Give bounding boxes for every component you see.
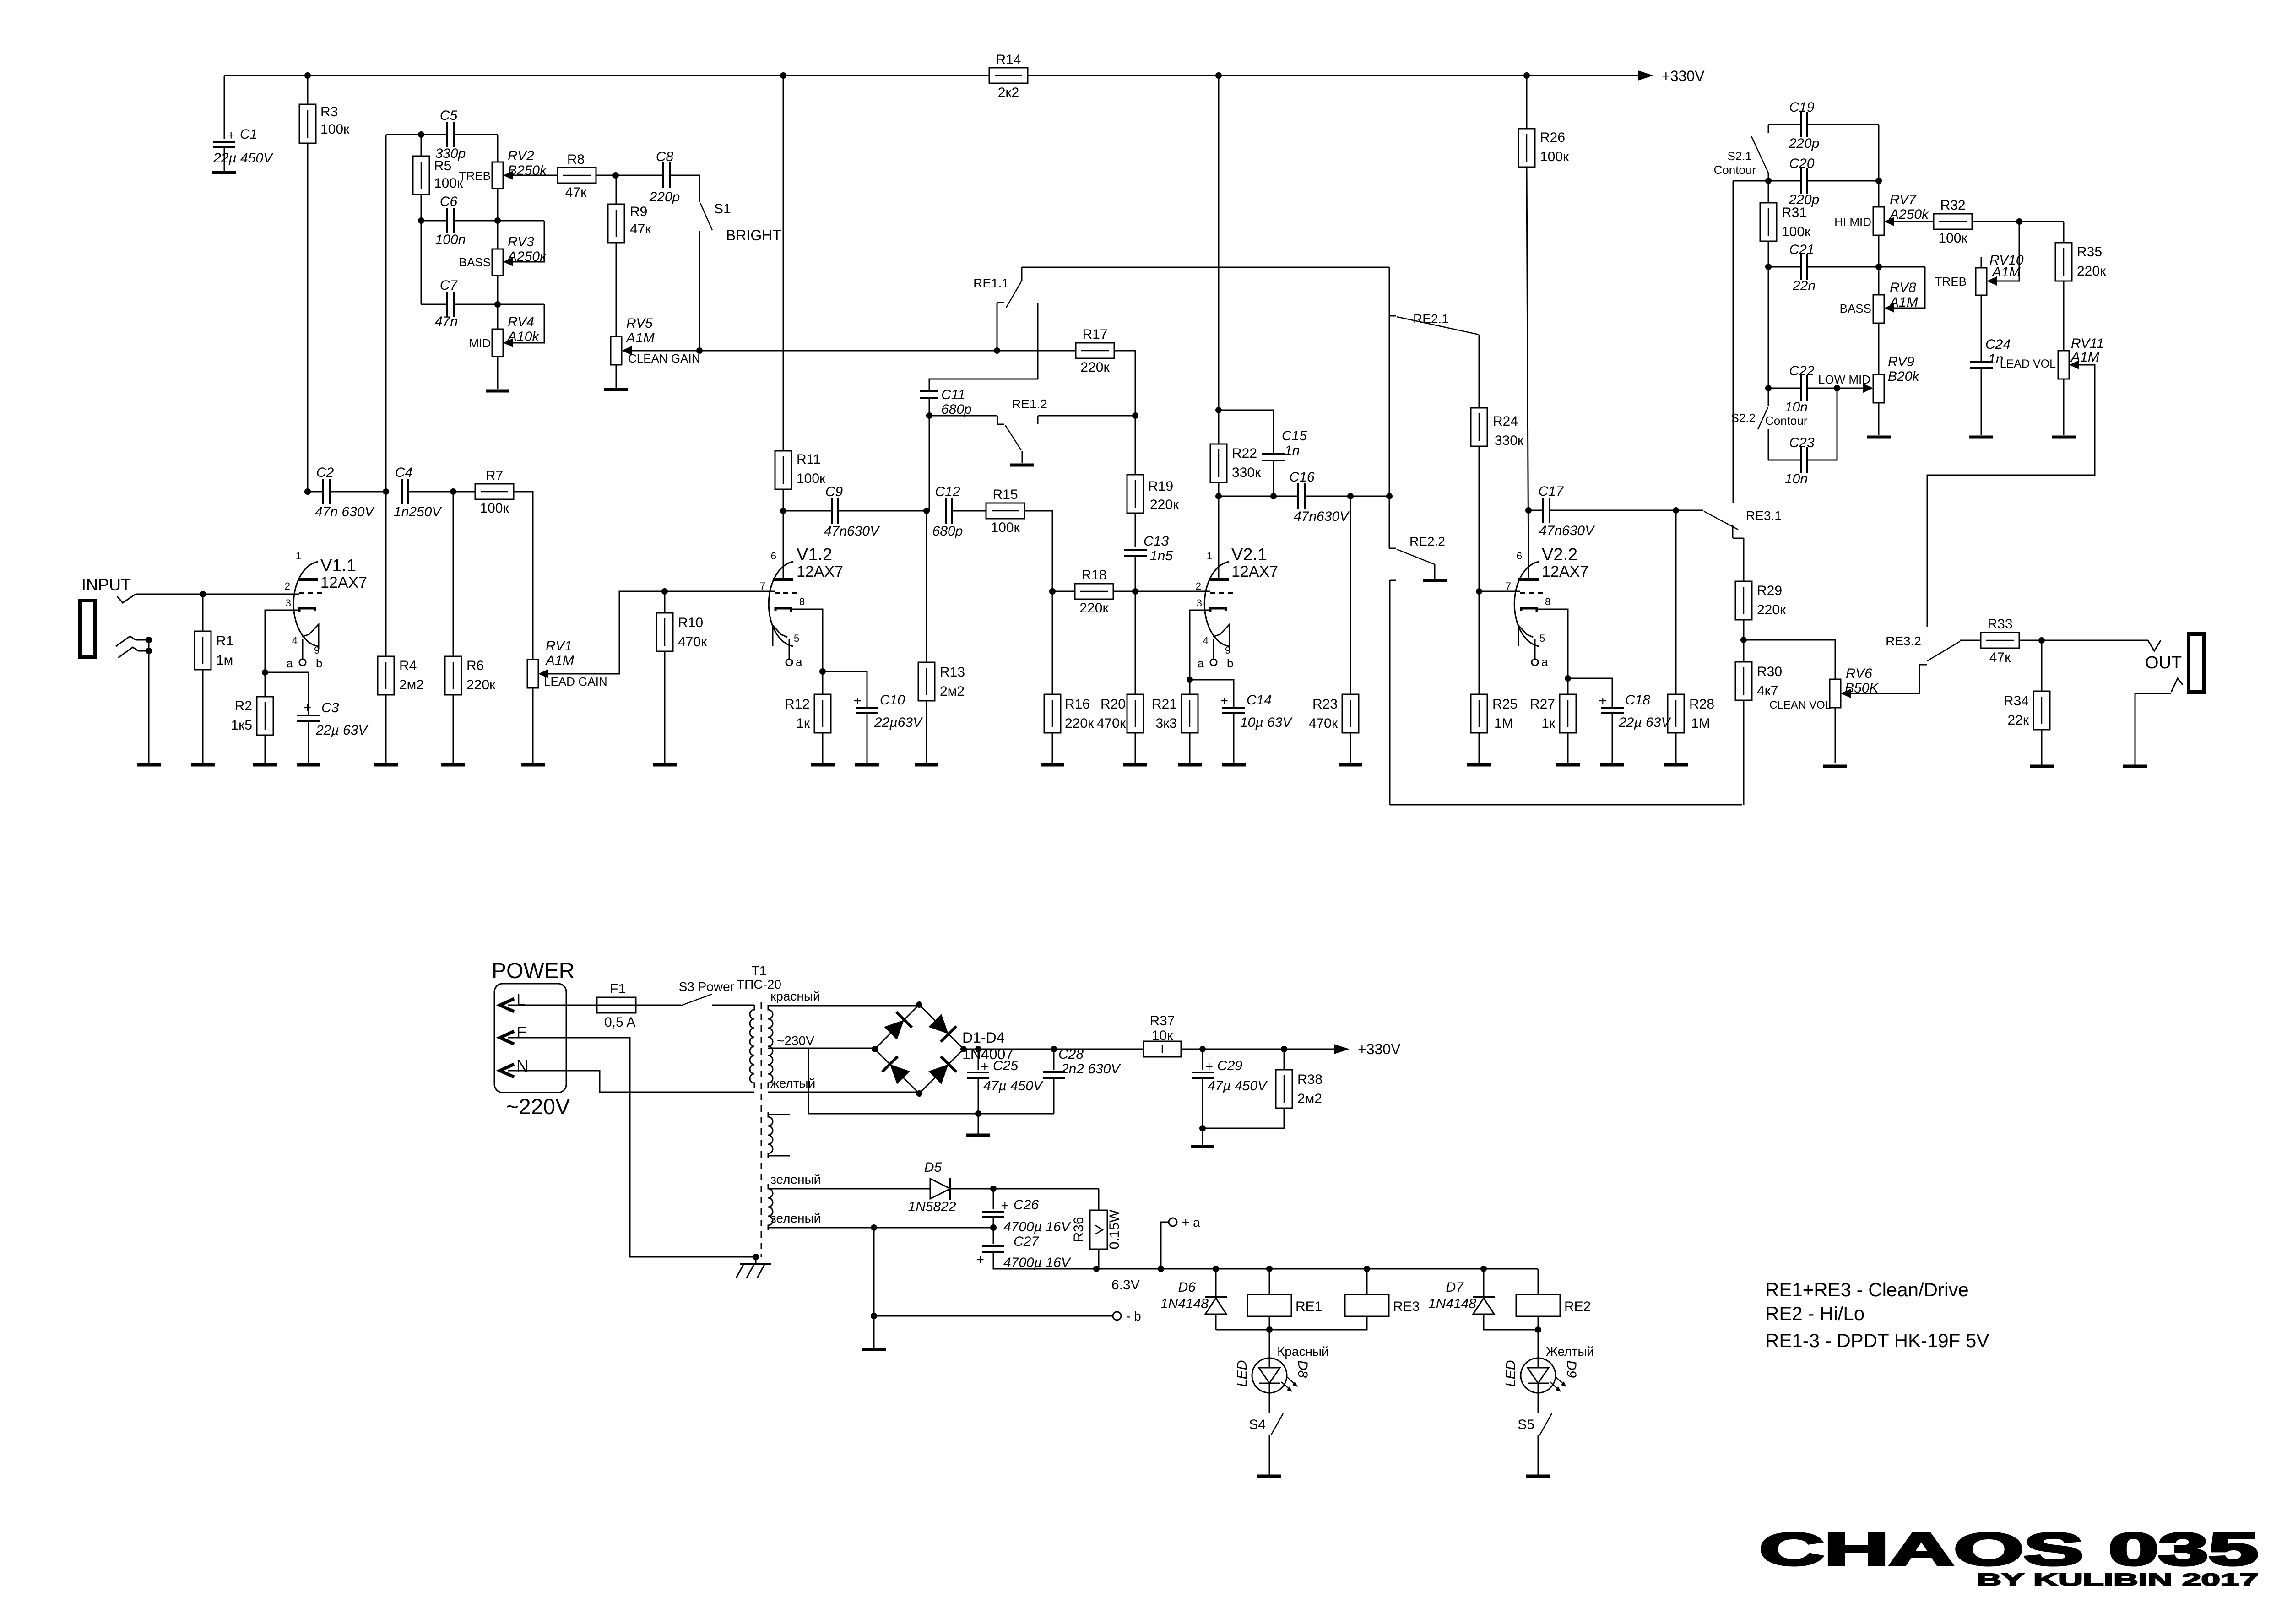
junction sleeve2 [146, 648, 152, 654]
resistor R5 [413, 135, 463, 221]
relay contact RE3.2 [1886, 634, 1960, 665]
svg-text:47к: 47к [630, 222, 651, 237]
svg-text:красный: красный [770, 989, 820, 1003]
ground R34 [2030, 765, 2054, 768]
wire E path [508, 1038, 756, 1257]
svg-text:1M: 1M [1494, 716, 1513, 731]
resistor R9 [608, 175, 651, 243]
diode D4 [927, 1056, 956, 1086]
resistor R6 [445, 492, 496, 763]
wire -b leg [874, 1228, 1113, 1316]
resistor R20 [1097, 591, 1144, 763]
switch S5 [1518, 1413, 1552, 1475]
ground RV1 [521, 763, 545, 767]
resistor R2 [231, 672, 274, 763]
chassis ground [736, 1257, 771, 1278]
capacitor C17 [1528, 484, 1676, 538]
junction R33/R34 [2038, 637, 2045, 644]
wire V2.2 grid [1479, 591, 1520, 592]
capacitor C22 [1785, 363, 1815, 415]
junction S1/RV5row [696, 347, 703, 354]
svg-text:C19: C19 [1789, 100, 1814, 115]
svg-text:R27: R27 [1530, 697, 1555, 712]
svg-text:+: + [976, 1252, 984, 1267]
svg-text:12AX7: 12AX7 [797, 563, 843, 580]
svg-text:RV11: RV11 [2071, 336, 2104, 351]
wire D8 to S4 [1269, 1393, 1270, 1413]
svg-text:A10k: A10k [507, 329, 540, 344]
svg-text:R1: R1 [216, 633, 233, 649]
svg-text:R8: R8 [567, 152, 585, 167]
ground C3 [297, 763, 320, 767]
svg-text:100к: 100к [1938, 231, 1967, 246]
svg-text:A1M: A1M [545, 653, 574, 668]
ground R25 [1467, 763, 1491, 767]
resistor R22 [1210, 76, 1261, 482]
junction R32/R35/RV10 [2016, 218, 2022, 225]
junction rail/RE3 [1364, 1266, 1370, 1272]
svg-text:C9: C9 [825, 484, 843, 499]
ground R6 [441, 763, 465, 767]
junction V2.1 cathode node [1187, 677, 1193, 683]
capacitor C1 [213, 76, 274, 171]
svg-text:Contour: Contour [1714, 163, 1756, 177]
svg-text:RV8: RV8 [1890, 280, 1916, 295]
svg-text:R28: R28 [1689, 697, 1714, 712]
jack OUT [2189, 634, 2204, 692]
junction RE1.2/R17/R19 [1132, 412, 1138, 419]
capacitor C15 [1219, 410, 1307, 496]
svg-text:4700µ 16V: 4700µ 16V [1003, 1255, 1072, 1270]
svg-text:9: 9 [314, 644, 320, 656]
capacitor C14 [1190, 680, 1293, 763]
svg-text:R30: R30 [1757, 664, 1782, 679]
ground C14 [1222, 763, 1246, 767]
resistor R30 [1735, 640, 1782, 805]
svg-text:LED: LED [1503, 1360, 1518, 1387]
svg-text:R29: R29 [1757, 583, 1782, 598]
capacitor C7 [435, 278, 458, 329]
capacitor C21 [1789, 242, 1816, 293]
junction C2/plate [304, 488, 311, 495]
ground R2 [253, 763, 277, 767]
ground RE2.2 [1423, 579, 1447, 582]
resistor R29 [1735, 538, 1786, 640]
wire RV11 to RE3.2 [1927, 365, 2095, 627]
wire RV4 bottom [497, 357, 499, 389]
svg-text:2м2: 2м2 [1297, 1091, 1322, 1106]
svg-text:C17: C17 [1538, 484, 1564, 499]
junction C2/C4/R4 [383, 488, 389, 495]
resistor R38 [1203, 1049, 1322, 1128]
wire S2.1 to C20 row [1768, 173, 1769, 181]
wire RV2 bottom [497, 189, 499, 221]
terminal +a [1161, 1215, 1200, 1269]
svg-text:C25: C25 [993, 1058, 1018, 1073]
resistor R26 [1518, 76, 1569, 167]
junction C9/C12/R13 [923, 508, 930, 514]
svg-text:C7: C7 [440, 278, 458, 293]
resistor R34 [2004, 640, 2050, 765]
relay coil RE2 [1516, 1269, 1591, 1330]
node POWER label [492, 959, 575, 983]
switch S2.1 [1714, 125, 1769, 177]
svg-text:47n630V: 47n630V [1539, 523, 1595, 538]
resistor R12 [785, 671, 831, 763]
svg-text:a: a [1541, 655, 1548, 669]
resistor R1 [195, 594, 233, 763]
resistor R23 [1309, 496, 1359, 763]
wire L to F1 [508, 1005, 597, 1006]
svg-text:D9: D9 [1564, 1360, 1579, 1378]
junction C5row/R5 [418, 131, 424, 138]
junction V1.2 cathode node [819, 668, 826, 675]
LED D8 [1235, 1330, 1329, 1393]
svg-text:C24: C24 [1985, 337, 2011, 352]
capacitor C6 [435, 194, 466, 247]
ground R16 [1041, 763, 1064, 767]
relay contact RE2.2 [1389, 534, 1445, 579]
node LOW MID label [1818, 373, 1870, 386]
wire C21 row [1768, 266, 1925, 268]
svg-text:T1: T1 [752, 964, 767, 978]
svg-text:R36: R36 [1071, 1217, 1086, 1242]
svg-text:C8: C8 [656, 149, 674, 164]
wire C5 row [386, 134, 498, 135]
svg-text:~230V: ~230V [777, 1034, 814, 1048]
svg-text:C14: C14 [1247, 693, 1272, 708]
svg-text:1N4148: 1N4148 [1160, 1296, 1209, 1311]
svg-text:RE3.1: RE3.1 [1746, 509, 1782, 523]
svg-text:C3: C3 [321, 700, 339, 715]
logo BY KULIBIN 2017 [1977, 1570, 2259, 1590]
potentiometer RV6 [1830, 666, 1879, 708]
svg-text:100к: 100к [1540, 149, 1569, 164]
svg-text:22µ 450V: 22µ 450V [213, 151, 274, 166]
node LEAD VOL label [2000, 357, 2056, 370]
svg-text:2м2: 2м2 [399, 677, 424, 693]
svg-text:BASS: BASS [459, 255, 491, 269]
wire RV6 bottom [1835, 708, 1836, 763]
svg-text:D7: D7 [1446, 1280, 1464, 1295]
svg-text:1: 1 [1207, 550, 1212, 562]
ground S4 [1257, 1475, 1281, 1478]
resistor R37 [1144, 1013, 1181, 1057]
svg-text:C20: C20 [1789, 156, 1814, 171]
wire RE2.1 post lower [1389, 316, 1390, 548]
wire RV7 bottom [1878, 235, 1880, 267]
svg-text:+: + [1205, 1059, 1213, 1074]
potentiometer RV5 [611, 316, 655, 365]
svg-text:N: N [516, 1056, 528, 1075]
capacitor C16 [1219, 470, 1389, 524]
junction bridge left [872, 1046, 878, 1052]
svg-text:~220V: ~220V [506, 1095, 570, 1119]
svg-text:C23: C23 [1789, 435, 1814, 450]
node OUT label [2145, 653, 2182, 672]
svg-text:C28: C28 [1058, 1047, 1084, 1062]
svg-text:47к: 47к [1989, 650, 2011, 665]
svg-text:7: 7 [1506, 580, 1511, 592]
wire C22 row [1768, 388, 1863, 389]
wire R5 to C7 row [421, 221, 422, 304]
svg-text:1к: 1к [796, 716, 810, 731]
ground R23 [1339, 763, 1362, 767]
svg-text:C16: C16 [1289, 470, 1314, 485]
svg-text:R38: R38 [1297, 1072, 1322, 1087]
svg-text:C4: C4 [395, 465, 412, 480]
svg-text:R13: R13 [940, 665, 965, 680]
tube V1.1 12AX7 [285, 550, 367, 670]
svg-text:3к3: 3к3 [1156, 716, 1177, 731]
svg-text:680p: 680p [932, 524, 963, 539]
svg-text:1n5: 1n5 [1150, 548, 1173, 563]
switch S2.2 [1731, 388, 1808, 429]
svg-text:R20: R20 [1100, 697, 1126, 712]
relay coil RE1 [1247, 1269, 1322, 1330]
svg-text:47n 630V: 47n 630V [315, 504, 375, 520]
junction C22/C23 [1834, 385, 1840, 391]
junction R36/rail [1093, 1266, 1100, 1272]
svg-text:b: b [316, 656, 322, 670]
svg-text:S4: S4 [1249, 1417, 1266, 1432]
transformer T1 HV winding [768, 1005, 773, 1088]
jack INPUT tip contact [117, 594, 136, 603]
wire желтый [768, 1092, 919, 1093]
svg-text:1n: 1n [1285, 443, 1300, 458]
wire R15 right [1024, 511, 1052, 591]
wire RV8 wiper feed [1894, 267, 1925, 308]
tube V2.1 12AX7 [1196, 545, 1278, 670]
wire F1 to S3 [636, 1005, 681, 1006]
svg-text:10n: 10n [1785, 400, 1808, 415]
wire S3 to T1 [712, 1005, 754, 1006]
svg-text:RE1.2: RE1.2 [1012, 397, 1047, 411]
wire C8 to S1 [670, 175, 699, 202]
svg-text:C18: C18 [1625, 693, 1650, 708]
wire left column x=843 [385, 135, 387, 492]
svg-text:C2: C2 [316, 465, 334, 480]
svg-text:RV4: RV4 [508, 314, 534, 330]
svg-text:R7: R7 [486, 468, 503, 483]
junction C17/R28 [1673, 507, 1679, 514]
resistor R24 [1471, 335, 1524, 448]
svg-text:6.3V: 6.3V [1111, 1278, 1140, 1293]
capacitor C20 [1789, 156, 1820, 207]
ground heater [862, 1316, 886, 1349]
junction C25 bottom [975, 1110, 981, 1117]
junction rail/R26 [1523, 72, 1530, 79]
svg-text:CHAOS 035: CHAOS 035 [1759, 1524, 2258, 1575]
node красный label [770, 989, 820, 1003]
svg-text:2: 2 [285, 580, 290, 592]
relay coil RE3 [1269, 1269, 1420, 1330]
ground R10 [653, 763, 677, 767]
wire RV5 bottom [616, 365, 617, 388]
ground R13 [915, 763, 938, 767]
wire R33 to OUT [2019, 640, 2148, 641]
potentiometer RV11 [2058, 336, 2104, 379]
ground C18 [1600, 763, 1624, 767]
potentiometer RV2 [459, 135, 547, 189]
svg-text:a: a [796, 655, 802, 669]
transformer T1 core [761, 1002, 762, 1257]
wire RV11 bottom [2063, 379, 2065, 435]
capacitor C13 [1124, 513, 1173, 591]
capacitor C4 [394, 465, 475, 520]
svg-text:470к: 470к [1309, 716, 1338, 731]
svg-text:C27: C27 [1014, 1234, 1039, 1249]
svg-text:V2.1: V2.1 [1231, 545, 1267, 564]
svg-text:TREB: TREB [459, 169, 491, 183]
svg-text:10µ 63V: 10µ 63V [1240, 715, 1293, 730]
junction зеленый/gnd leg [871, 1224, 877, 1231]
transformer T1 mid winding [768, 1112, 790, 1158]
svg-text:Красный: Красный [1277, 1344, 1329, 1359]
svg-text:R16: R16 [1065, 697, 1090, 712]
svg-text:BRIGHT: BRIGHT [726, 227, 781, 244]
wire RE1.1 top [1022, 267, 1389, 268]
relay contact RE1.1 [973, 267, 1022, 351]
svg-text:2м2: 2м2 [940, 684, 965, 699]
svg-text:C29: C29 [1217, 1058, 1242, 1073]
wire RE1.1 riser [1037, 303, 1039, 379]
relay contact RE2.1 [1389, 267, 1479, 335]
junction C16/R23 [1347, 493, 1354, 499]
capacitor C23 [1768, 388, 1837, 487]
svg-text:RE3.2: RE3.2 [1886, 634, 1921, 648]
resistor R32 [1934, 198, 1972, 246]
junction R8/R9 [612, 172, 619, 179]
diode D6 [1160, 1269, 1227, 1330]
LED D9 [1503, 1330, 1594, 1393]
ground input jack [137, 763, 161, 767]
junction C29/R38 bottom [1199, 1125, 1206, 1131]
resistor R7 [475, 468, 514, 516]
svg-text:R35: R35 [2077, 244, 2102, 260]
svg-text:R26: R26 [1540, 130, 1565, 145]
capacitor C19 [1789, 100, 1820, 151]
svg-text:A250k: A250k [1889, 207, 1930, 222]
svg-text:3: 3 [286, 597, 291, 609]
svg-text:LEAD GAIN: LEAD GAIN [544, 675, 607, 688]
ground R12 [811, 763, 835, 767]
wire RV9 bottom [1878, 403, 1880, 435]
svg-text:5: 5 [1539, 633, 1545, 644]
node +330V label [1662, 68, 1705, 84]
svg-text:R3: R3 [320, 104, 338, 119]
wire OUT sleeve ground [2135, 693, 2136, 765]
wire RV8 chain [1878, 323, 1880, 374]
capacitor C26 [982, 1189, 1072, 1234]
svg-text:C26: C26 [1014, 1197, 1039, 1213]
svg-text:зеленый: зеленый [770, 1211, 821, 1225]
diode D5 [908, 1160, 956, 1214]
node ~230V label [777, 1034, 814, 1048]
wire +330V rail [224, 70, 1653, 81]
svg-text:E: E [516, 1023, 527, 1042]
ground R21 [1178, 763, 1202, 767]
capacitor C25 [967, 1049, 1044, 1114]
ground RV5 [604, 388, 628, 391]
svg-text:RE1.1: RE1.1 [973, 276, 1009, 290]
junction rail/R11 [780, 72, 786, 79]
wire R32 right [1972, 221, 2064, 222]
diode D7 [1428, 1269, 1538, 1330]
junction R18 right [1132, 588, 1138, 595]
svg-text:желтый: желтый [770, 1076, 815, 1090]
capacitor C2 [308, 465, 386, 520]
wire RV1 bottom [532, 688, 534, 763]
ground C10 [855, 763, 879, 767]
svg-text:4к7: 4к7 [1757, 683, 1778, 698]
node CLEAN VOL label [1769, 699, 1831, 711]
resistor R4 [378, 492, 424, 763]
wire R22 to plate [1218, 482, 1220, 579]
wire R24 to grid node [1479, 446, 1480, 591]
wire RV4 wiper feed [513, 304, 544, 343]
resistor R31 [1760, 181, 1811, 267]
resistor R14 [989, 52, 1028, 100]
svg-text:680p: 680p [941, 402, 972, 417]
svg-text:12AX7: 12AX7 [320, 574, 367, 591]
svg-text:+: + [227, 128, 235, 143]
wire C19 row [1768, 124, 1879, 125]
svg-text:10n: 10n [1785, 471, 1808, 487]
svg-text:+: + [1599, 693, 1607, 709]
wire V2.1 cathode [1190, 610, 1210, 680]
svg-text:1к: 1к [1541, 716, 1556, 731]
svg-text:R37: R37 [1149, 1013, 1175, 1029]
junction bridge right [960, 1046, 967, 1052]
diode D2 [927, 1012, 956, 1042]
ground OUT [2123, 765, 2147, 768]
wire красный [768, 1005, 919, 1007]
svg-text:22µ63V: 22µ63V [874, 715, 923, 730]
node зеленый label top [770, 1172, 821, 1186]
svg-text:INPUT: INPUT [81, 575, 131, 594]
svg-text:- b: - b [1126, 1309, 1141, 1323]
junction +a/rail [1158, 1266, 1164, 1272]
ground R27 [1556, 763, 1580, 767]
svg-text:9: 9 [1225, 644, 1230, 656]
svg-text:BASS: BASS [1840, 302, 1871, 315]
svg-text:RV6: RV6 [1846, 666, 1872, 681]
junction E/core [753, 1254, 759, 1260]
svg-text:2к2: 2к2 [998, 85, 1019, 100]
svg-text:C21: C21 [1789, 242, 1814, 257]
ground R4 [374, 763, 398, 767]
resistor R13 [918, 511, 965, 763]
capacitor C24 [1970, 295, 2011, 435]
transformer T1 primary winding [750, 1005, 754, 1088]
resistor R3 [299, 76, 350, 143]
svg-text:C1: C1 [240, 127, 257, 142]
wire RE1.2 left [929, 415, 997, 417]
svg-text:a: a [287, 656, 293, 670]
wire зеленый bottom [768, 1227, 993, 1229]
svg-text:R18: R18 [1081, 568, 1106, 583]
svg-text:BY KULIBIN 2017: BY KULIBIN 2017 [1977, 1570, 2259, 1590]
junction V1.1 cathode node [262, 669, 268, 676]
svg-text:R31: R31 [1782, 205, 1807, 220]
svg-text:1: 1 [296, 550, 301, 562]
svg-text:LOW MID: LOW MID [1818, 373, 1870, 386]
svg-text:RV2: RV2 [508, 148, 534, 163]
logo CHAOS 035 [1759, 1524, 2258, 1575]
svg-text:R15: R15 [992, 487, 1018, 502]
svg-text:100к: 100к [1782, 224, 1811, 239]
